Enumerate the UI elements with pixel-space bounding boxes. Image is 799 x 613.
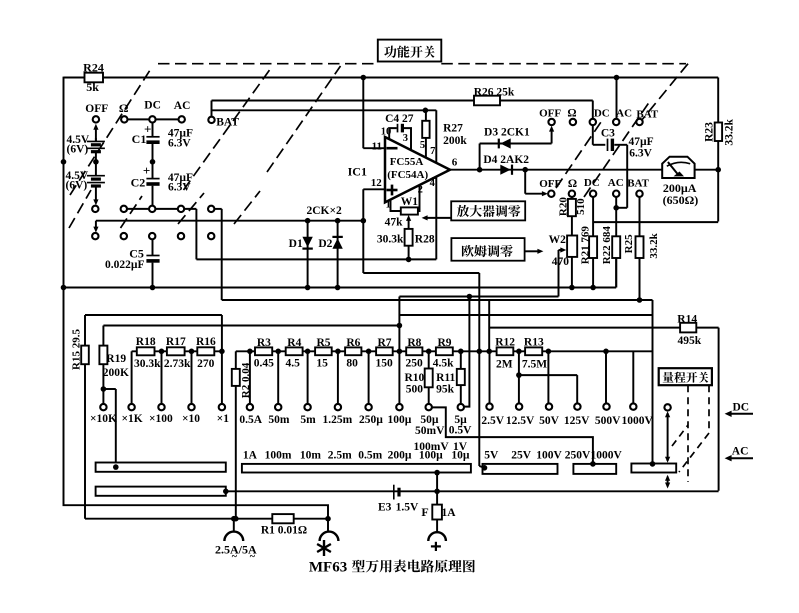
svg-text:200K: 200K [103, 367, 129, 379]
svg-text:BAT: BAT [627, 177, 649, 189]
svg-text:×1K: ×1K [121, 413, 142, 425]
svg-text:Ω: Ω [568, 178, 577, 190]
svg-text:200µ: 200µ [388, 449, 412, 461]
svg-text:R9: R9 [437, 337, 451, 349]
svg-text:C4 27: C4 27 [385, 113, 414, 125]
svg-text:C3: C3 [601, 127, 615, 139]
svg-text:MF63: MF63 [309, 559, 347, 575]
svg-text:250V: 250V [565, 450, 591, 462]
svg-text:12: 12 [371, 177, 383, 189]
svg-text:1000V: 1000V [622, 415, 654, 427]
svg-text:15: 15 [316, 358, 328, 370]
svg-text:47k: 47k [385, 216, 404, 228]
svg-text:(6V): (6V) [67, 143, 89, 155]
svg-text:95k: 95k [436, 383, 455, 395]
svg-text:(6V): (6V) [66, 179, 88, 191]
svg-text:2.73k: 2.73k [164, 358, 191, 370]
svg-text:10: 10 [381, 127, 392, 138]
svg-text:270: 270 [197, 358, 215, 370]
svg-text:47µF: 47µF [629, 136, 654, 148]
svg-text:DC: DC [144, 100, 161, 112]
svg-text:5V: 5V [484, 450, 499, 462]
svg-text:7: 7 [430, 146, 435, 157]
svg-text:6.3V: 6.3V [168, 182, 191, 194]
svg-text:R15 29.5: R15 29.5 [70, 329, 82, 370]
svg-text:200k: 200k [443, 135, 467, 147]
svg-text:R19: R19 [106, 353, 126, 365]
svg-text:W1: W1 [401, 196, 419, 208]
svg-text:5m: 5m [300, 414, 316, 426]
svg-text:33.2k: 33.2k [723, 119, 735, 146]
svg-text:1.25m: 1.25m [322, 414, 352, 426]
svg-text:R27: R27 [443, 122, 463, 134]
svg-text:4.5: 4.5 [286, 358, 301, 370]
svg-text:R10: R10 [404, 372, 424, 384]
svg-text:Ω: Ω [119, 101, 129, 115]
svg-text:AC: AC [174, 100, 191, 112]
svg-text:2: 2 [418, 185, 423, 196]
svg-text:150: 150 [375, 358, 393, 370]
svg-text:0.45: 0.45 [254, 358, 274, 370]
svg-text:DC: DC [732, 401, 749, 413]
svg-text:6.3V: 6.3V [168, 137, 191, 149]
svg-text:100µ: 100µ [388, 414, 412, 426]
svg-text:7.5M: 7.5M [522, 359, 547, 371]
svg-text:W2: W2 [549, 234, 567, 246]
svg-text:OFF: OFF [539, 107, 561, 119]
svg-text:R24: R24 [83, 60, 104, 74]
svg-text:50V: 50V [539, 415, 560, 427]
svg-text:6.3V: 6.3V [629, 148, 652, 160]
svg-text:6: 6 [452, 156, 458, 168]
svg-text:1A: 1A [441, 507, 456, 519]
svg-text:125V: 125V [564, 415, 590, 427]
svg-text:2.5m: 2.5m [328, 449, 352, 461]
svg-text:0.5V: 0.5V [449, 425, 472, 437]
svg-text:100m: 100m [265, 449, 292, 461]
svg-text:R5: R5 [316, 337, 330, 349]
svg-text:11: 11 [372, 140, 382, 152]
svg-text:R16: R16 [196, 336, 216, 348]
svg-text:Ω: Ω [567, 107, 576, 119]
svg-text:1.5V: 1.5V [396, 502, 419, 514]
svg-text:×10K: ×10K [90, 413, 117, 425]
svg-text:R13: R13 [524, 337, 544, 349]
svg-text:5k: 5k [86, 80, 99, 94]
svg-text:R4: R4 [287, 337, 301, 349]
svg-text:R3: R3 [257, 337, 271, 349]
svg-text:12.5V: 12.5V [506, 415, 535, 427]
svg-text:R22 684: R22 684 [601, 226, 613, 265]
svg-text:0.5m: 0.5m [358, 449, 382, 461]
svg-text:R20: R20 [557, 197, 569, 216]
svg-text:250µ: 250µ [359, 414, 383, 426]
svg-text:AC: AC [608, 177, 624, 189]
svg-text:BAT: BAT [636, 109, 658, 121]
svg-text:4.5k: 4.5k [433, 358, 454, 370]
svg-text:1: 1 [386, 200, 391, 211]
svg-text:470: 470 [552, 256, 570, 268]
svg-text:D4 2AK2: D4 2AK2 [483, 154, 529, 166]
svg-text:R14: R14 [677, 313, 697, 325]
svg-text:D2: D2 [318, 238, 332, 250]
svg-text:495k: 495k [677, 335, 701, 347]
svg-text:50m: 50m [268, 414, 290, 426]
svg-text:R21 769: R21 769 [580, 226, 592, 265]
svg-text:DC: DC [584, 177, 600, 189]
svg-text:5: 5 [420, 140, 425, 151]
svg-text:×1: ×1 [217, 413, 230, 425]
svg-text:250: 250 [405, 358, 423, 370]
svg-text:2CK×2: 2CK×2 [306, 205, 342, 217]
svg-text:10µ: 10µ [451, 449, 470, 461]
svg-text:AC: AC [732, 446, 749, 458]
svg-text:~: ~ [232, 552, 238, 563]
svg-text:×100: ×100 [149, 413, 173, 425]
svg-text:R7: R7 [377, 337, 391, 349]
svg-text:4: 4 [430, 178, 436, 189]
svg-text:500V: 500V [595, 415, 621, 427]
svg-text:R1 0.01Ω: R1 0.01Ω [261, 525, 307, 537]
svg-text:500: 500 [406, 383, 424, 395]
svg-text:×10: ×10 [182, 413, 200, 425]
svg-text:R23: R23 [704, 122, 716, 142]
svg-text:DC: DC [594, 108, 610, 120]
svg-text:1000V: 1000V [590, 450, 622, 462]
svg-text:R26 25k: R26 25k [474, 86, 515, 98]
svg-text:510: 510 [575, 198, 587, 215]
svg-text:AC: AC [616, 108, 632, 120]
svg-text:(650Ω): (650Ω) [663, 193, 699, 207]
svg-text:R28: R28 [415, 233, 435, 245]
svg-text:R25: R25 [623, 234, 635, 253]
svg-text:30.3k: 30.3k [134, 358, 161, 370]
svg-text:FC55A: FC55A [390, 156, 424, 168]
svg-text:100µ: 100µ [419, 449, 443, 461]
svg-text:+: + [144, 121, 151, 136]
svg-text:0.022µF: 0.022µF [105, 259, 145, 271]
svg-text:OFF: OFF [539, 178, 561, 190]
svg-text:1A: 1A [243, 449, 258, 461]
svg-text:R18: R18 [136, 336, 156, 348]
svg-text:D1: D1 [289, 238, 303, 250]
svg-text:0.5A: 0.5A [239, 414, 262, 426]
svg-text:~: ~ [250, 552, 256, 563]
svg-text:2.5V: 2.5V [481, 415, 504, 427]
svg-text:+: + [143, 163, 150, 178]
svg-text:R2 0.04: R2 0.04 [240, 362, 252, 398]
svg-text:100V: 100V [536, 450, 562, 462]
svg-text:33.2k: 33.2k [648, 232, 660, 258]
svg-text:F: F [421, 505, 428, 519]
svg-text:R11: R11 [436, 372, 455, 384]
svg-text:R17: R17 [166, 336, 186, 348]
svg-text:D3 2CK1: D3 2CK1 [484, 126, 530, 138]
svg-text:80: 80 [346, 358, 358, 370]
svg-text:E3: E3 [378, 502, 392, 514]
svg-text:R6: R6 [346, 337, 360, 349]
svg-text:10m: 10m [300, 449, 322, 461]
svg-text:OFF: OFF [85, 103, 108, 115]
svg-text:(FC54A): (FC54A) [387, 169, 428, 181]
svg-text:25V: 25V [511, 450, 532, 462]
svg-text:R8: R8 [407, 337, 421, 349]
svg-text:IC1: IC1 [348, 164, 367, 178]
svg-text:50mV: 50mV [415, 425, 445, 437]
svg-text:BAT: BAT [216, 116, 239, 128]
svg-text:2M: 2M [496, 359, 513, 371]
svg-text:3: 3 [403, 133, 408, 144]
svg-text:R12: R12 [495, 337, 515, 349]
svg-text:30.3k: 30.3k [377, 233, 404, 245]
